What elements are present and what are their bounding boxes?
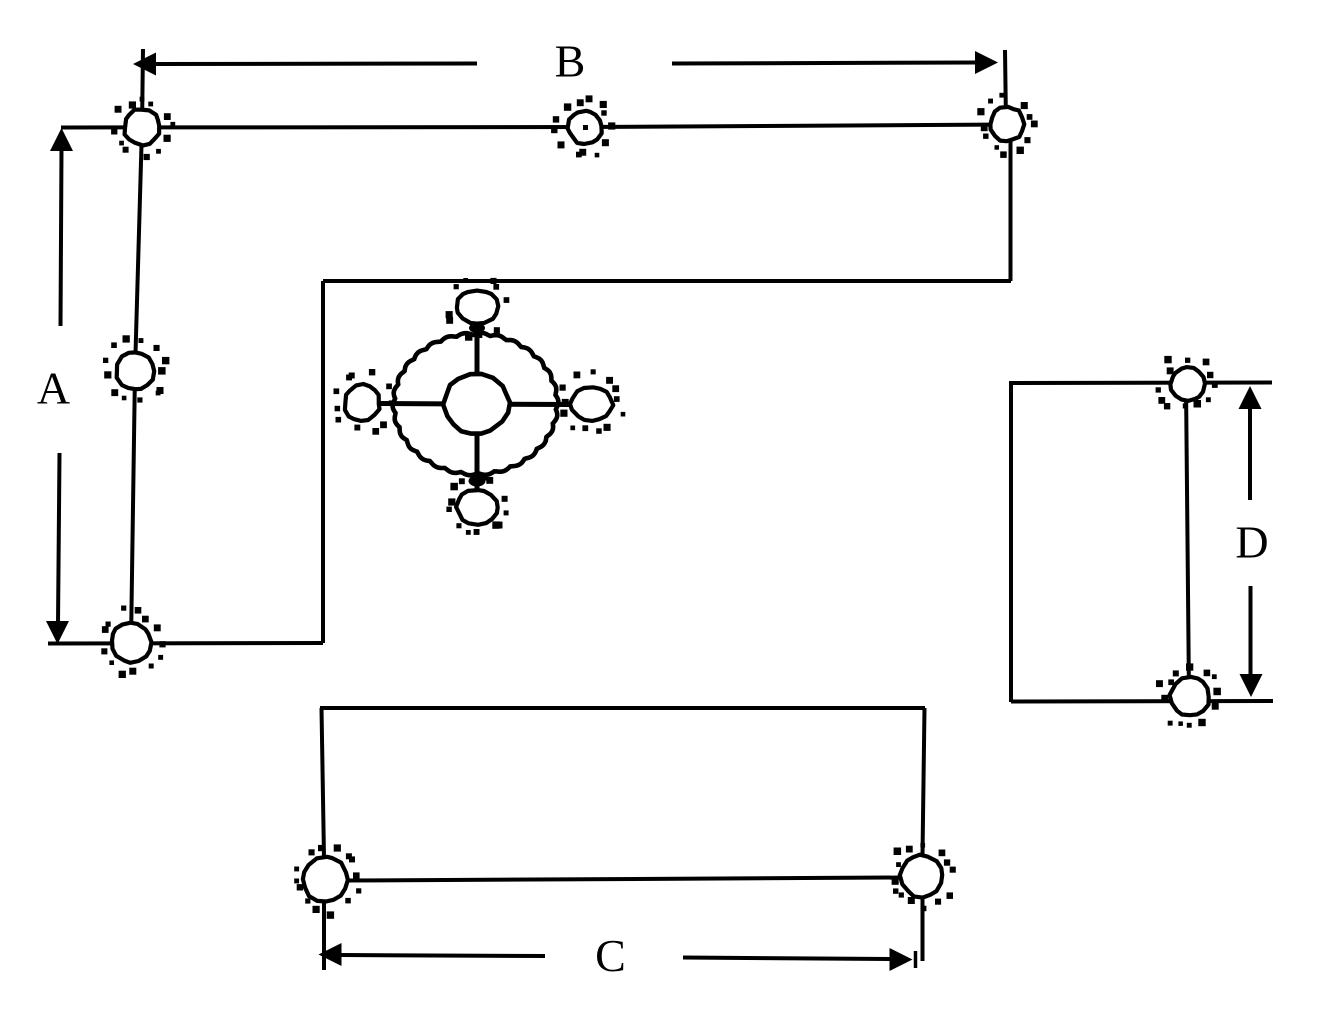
node on top wire right (B end)	[977, 93, 1037, 158]
wire: left vertical main line	[131, 127, 142, 642]
node on left wire bottom (A end)	[101, 606, 165, 679]
arrowhead C right	[890, 948, 913, 971]
junction blob where cross line meets ring top	[469, 323, 485, 333]
dimension line C right segment	[683, 958, 893, 960]
dimension line B right segment	[672, 63, 978, 64]
label C	[595, 930, 626, 981]
tick at C right arrowhead	[914, 951, 918, 968]
dimension line A upper segment	[61, 148, 62, 326]
dimension line D lower segment	[1249, 586, 1253, 676]
right box middle vertical wire	[1186, 385, 1189, 696]
dimension line C left segment	[341, 955, 545, 956]
bottom box node-to-node wire	[348, 878, 901, 881]
label B	[555, 36, 586, 87]
svg-text:B: B	[555, 36, 586, 87]
bottom box top line	[320, 706, 925, 710]
dimension line D upper segment	[1248, 405, 1252, 500]
dimension line B left segment	[155, 62, 477, 67]
wire: right vertical from top-right node	[1009, 125, 1013, 282]
right box top node (D start)	[1156, 356, 1218, 410]
right box bottom line	[1011, 699, 1273, 704]
wire: top horizontal main line	[61, 125, 1007, 128]
label A	[37, 363, 70, 414]
bottom box left vertical line	[322, 708, 325, 858]
node on top wire left (B start)	[111, 97, 175, 160]
rosette outer scalloped ring	[393, 333, 559, 475]
arrowhead A down	[46, 621, 69, 644]
dimension line A lower segment	[58, 453, 60, 624]
arrowhead B left	[133, 53, 156, 76]
wire: bottom-left horizontal line	[48, 641, 323, 646]
svg-text:D: D	[1235, 517, 1268, 568]
rosette cross vertical line	[475, 322, 480, 490]
arrowhead A up	[50, 128, 73, 151]
arrowhead C left	[319, 943, 342, 966]
label D	[1235, 517, 1268, 568]
arrowhead D up	[1239, 386, 1262, 409]
right box bottom node (D end)	[1156, 663, 1221, 727]
rosette right petal	[560, 369, 626, 434]
center speck inside middle node	[583, 125, 588, 130]
rosette cross horizontal line	[373, 404, 569, 405]
rosette inner circle	[443, 374, 510, 434]
stub below bottom-right node	[921, 898, 925, 961]
node on left wire middle	[103, 335, 169, 402]
arrowhead D down	[1240, 674, 1263, 697]
stub below bottom-left node	[322, 901, 326, 970]
wire: step horizontal line	[323, 279, 1011, 283]
extension tick above top-left node	[142, 49, 143, 127]
extension tick above top-right node	[1005, 50, 1006, 124]
svg-text:C: C	[595, 930, 626, 981]
right box top line	[1009, 381, 1272, 386]
right box left vertical line	[1009, 383, 1013, 702]
junction blob where cross line meets ring bottom	[469, 476, 486, 487]
bottom box right vertical line	[923, 708, 925, 855]
rosette left petal	[334, 369, 395, 435]
arrowhead B right	[975, 51, 998, 74]
node on top wire middle	[551, 95, 615, 157]
rosette top petal	[446, 278, 510, 341]
bottom box left node (C start)	[294, 844, 361, 918]
rosette bottom petal	[446, 475, 508, 535]
wire: step vertical line	[321, 281, 325, 643]
bottom box right node (C end)	[892, 843, 956, 911]
svg-text:A: A	[37, 363, 70, 414]
